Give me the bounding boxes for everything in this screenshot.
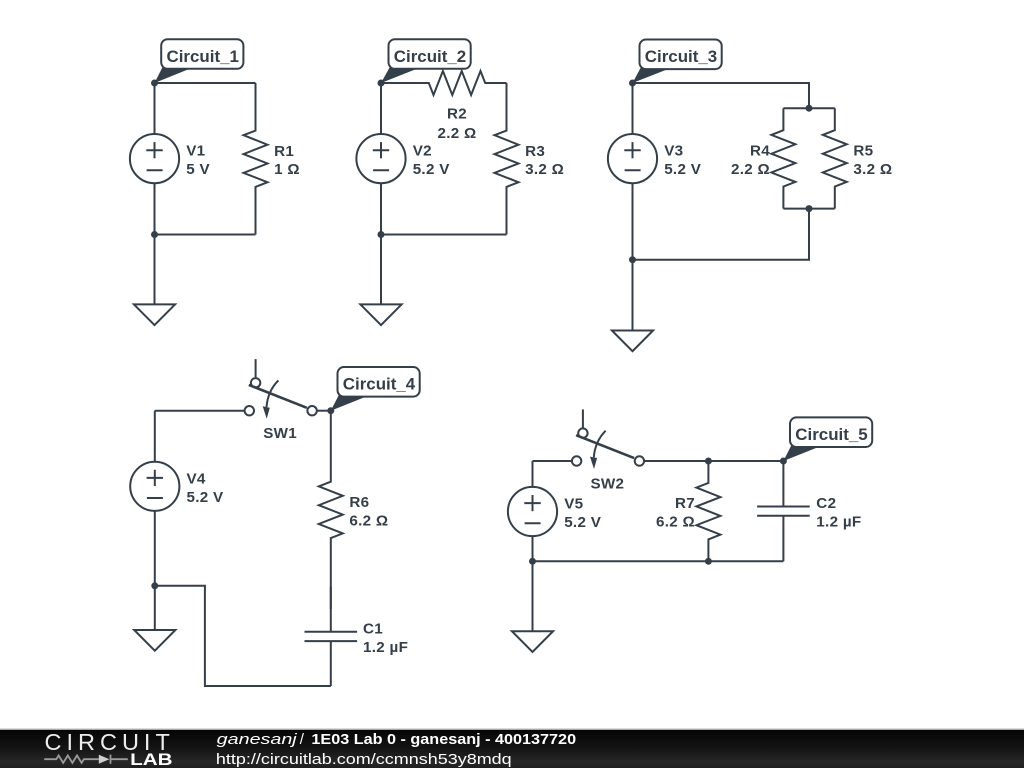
svg-text:SW1: SW1 bbox=[263, 425, 297, 442]
footer title text bbox=[217, 731, 576, 748]
wire bbox=[533, 560, 784, 562]
svg-text:R6: R6 bbox=[349, 494, 369, 511]
label Circuit_2 callout bbox=[381, 39, 471, 83]
ground bbox=[134, 304, 175, 325]
wire bbox=[532, 461, 534, 487]
svg-text:5.2 V: 5.2 V bbox=[664, 161, 702, 178]
capacitor C1 bbox=[305, 587, 358, 686]
wire bbox=[155, 82, 256, 84]
svg-text:LAB: LAB bbox=[130, 751, 172, 768]
switch SW2 bbox=[572, 409, 644, 469]
label R5 value bbox=[853, 143, 892, 178]
resistor R2 bbox=[381, 71, 507, 95]
node bbox=[151, 582, 158, 589]
node bbox=[378, 231, 385, 238]
node bbox=[705, 458, 712, 465]
svg-text:R5: R5 bbox=[853, 143, 873, 160]
node bbox=[327, 407, 334, 414]
label R7 value bbox=[656, 495, 695, 530]
node bbox=[629, 256, 636, 263]
svg-text:R4: R4 bbox=[750, 143, 770, 160]
wire bbox=[632, 83, 634, 134]
resistor R4 bbox=[771, 108, 795, 208]
switch SW1 bbox=[245, 359, 317, 419]
wire bbox=[532, 561, 534, 631]
wire bbox=[632, 260, 634, 331]
label Circuit_4 callout bbox=[331, 367, 420, 411]
label R4 value bbox=[731, 143, 770, 178]
wire bbox=[155, 586, 331, 686]
svg-text:R1: R1 bbox=[274, 143, 294, 160]
wire bbox=[783, 208, 834, 210]
label V5 value bbox=[564, 496, 602, 531]
svg-text:5.2 V: 5.2 V bbox=[187, 489, 225, 506]
svg-text:Circuit_4: Circuit_4 bbox=[343, 375, 416, 394]
wire bbox=[380, 83, 382, 134]
node bbox=[629, 80, 636, 87]
svg-text:1 Ω: 1 Ω bbox=[274, 161, 300, 178]
svg-text:ganesanj: ganesanj bbox=[217, 731, 298, 748]
wire bbox=[381, 234, 507, 236]
resistor R1 bbox=[244, 83, 268, 235]
svg-text:2.2 Ω: 2.2 Ω bbox=[437, 125, 476, 142]
svg-text:V5: V5 bbox=[564, 496, 583, 513]
ground bbox=[360, 304, 401, 325]
label V4 value bbox=[187, 470, 225, 505]
wire bbox=[632, 183, 634, 260]
voltage source V1 bbox=[130, 134, 179, 183]
ground bbox=[612, 331, 653, 352]
wire bbox=[532, 536, 534, 561]
label C1 value bbox=[363, 621, 408, 656]
svg-text:3.2 Ω: 3.2 Ω bbox=[525, 161, 564, 178]
wire bbox=[644, 460, 783, 462]
resistor R3 bbox=[495, 83, 519, 235]
svg-text:1E03 Lab 0 - ganesanj - 400137: 1E03 Lab 0 - ganesanj - 400137720 bbox=[311, 731, 576, 748]
svg-text:1.2 µF: 1.2 µF bbox=[816, 514, 861, 531]
label Circuit_5 callout bbox=[783, 417, 872, 461]
label Circuit_3 callout bbox=[633, 40, 722, 84]
svg-text:C2: C2 bbox=[816, 495, 836, 512]
svg-text:R3: R3 bbox=[525, 143, 545, 160]
svg-text:R2: R2 bbox=[447, 106, 467, 123]
svg-text:5.2 V: 5.2 V bbox=[564, 514, 602, 531]
svg-text:Circuit_3: Circuit_3 bbox=[645, 47, 717, 66]
wire bbox=[317, 410, 331, 412]
svg-text:6.2 Ω: 6.2 Ω bbox=[349, 512, 388, 529]
wire bbox=[633, 209, 810, 260]
wire bbox=[155, 234, 256, 236]
wire bbox=[154, 183, 156, 234]
label R3 value bbox=[525, 143, 564, 178]
wire bbox=[380, 235, 382, 305]
voltage source V3 bbox=[608, 134, 657, 183]
label R6 value bbox=[349, 494, 388, 529]
logo resistor-diode squiggle bbox=[44, 755, 128, 764]
voltage source V5 bbox=[508, 487, 557, 536]
label Circuit_1 callout bbox=[155, 39, 244, 83]
label V3 value bbox=[664, 143, 702, 178]
label R1 value bbox=[274, 143, 300, 178]
svg-text:6.2 Ω: 6.2 Ω bbox=[656, 514, 695, 531]
voltage source V2 bbox=[356, 134, 405, 183]
node bbox=[705, 558, 712, 565]
svg-text:Circuit_1: Circuit_1 bbox=[167, 47, 239, 66]
logo CircuitLab bbox=[44, 729, 172, 768]
wire bbox=[155, 410, 245, 412]
node bbox=[806, 205, 813, 212]
capacitor C2 bbox=[757, 461, 810, 561]
svg-text:Circuit_2: Circuit_2 bbox=[394, 47, 466, 66]
wire bbox=[633, 83, 810, 108]
svg-text:5.2 V: 5.2 V bbox=[413, 161, 451, 178]
wire bbox=[154, 83, 156, 134]
wire bbox=[154, 586, 156, 630]
svg-text:SW2: SW2 bbox=[590, 476, 624, 493]
wire bbox=[154, 511, 156, 586]
resistor R7 bbox=[696, 461, 720, 561]
label C2 value bbox=[816, 495, 861, 530]
node bbox=[151, 80, 158, 87]
resistor R6 bbox=[319, 411, 343, 609]
svg-text:5 V: 5 V bbox=[186, 161, 210, 178]
svg-text:3.2 Ω: 3.2 Ω bbox=[853, 161, 892, 178]
node bbox=[529, 558, 536, 565]
voltage source V4 bbox=[130, 462, 179, 511]
svg-text:R7: R7 bbox=[675, 495, 695, 512]
node bbox=[780, 458, 787, 465]
svg-text:2.2 Ω: 2.2 Ω bbox=[731, 161, 770, 178]
svg-text:C1: C1 bbox=[363, 621, 383, 638]
svg-text:V1: V1 bbox=[186, 143, 205, 160]
node bbox=[806, 105, 813, 112]
wire bbox=[154, 411, 156, 462]
label R2 value bbox=[437, 106, 476, 143]
svg-text:http://circuitlab.com/ccmnsh53: http://circuitlab.com/ccmnsh53y8mdq bbox=[216, 751, 512, 768]
svg-text:Circuit_5: Circuit_5 bbox=[795, 425, 867, 444]
label V2 value bbox=[413, 143, 451, 178]
node bbox=[378, 80, 385, 87]
node bbox=[151, 231, 158, 238]
svg-text:V2: V2 bbox=[413, 143, 432, 160]
svg-text:V4: V4 bbox=[187, 470, 206, 487]
svg-text:1.2 µF: 1.2 µF bbox=[363, 639, 408, 656]
ground bbox=[512, 631, 553, 652]
wire bbox=[380, 183, 382, 234]
svg-text:V3: V3 bbox=[664, 143, 683, 160]
wire bbox=[783, 107, 834, 109]
ground bbox=[134, 630, 175, 651]
label V1 value bbox=[186, 143, 210, 178]
wire bbox=[533, 460, 572, 462]
wire bbox=[154, 235, 156, 305]
resistor R5 bbox=[823, 108, 847, 208]
footer bar bbox=[0, 729, 1024, 768]
